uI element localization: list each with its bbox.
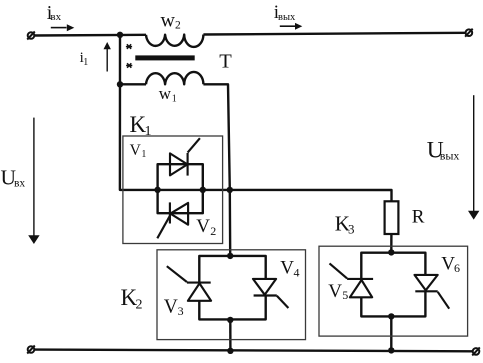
svg-text:1: 1 <box>141 149 146 160</box>
svg-text:6: 6 <box>454 261 460 275</box>
svg-text:2: 2 <box>175 19 181 31</box>
svg-text:5: 5 <box>342 288 348 302</box>
svg-text:2: 2 <box>210 224 216 238</box>
svg-text:вых: вых <box>278 12 296 23</box>
svg-text:R: R <box>412 206 425 227</box>
svg-text:V: V <box>196 216 210 237</box>
svg-text:3: 3 <box>178 304 184 318</box>
svg-text:вх: вх <box>14 177 25 189</box>
svg-text:2: 2 <box>136 298 143 313</box>
svg-text:w: w <box>159 84 172 103</box>
svg-text:V: V <box>280 258 294 279</box>
svg-text:V: V <box>130 142 142 159</box>
svg-text:3: 3 <box>348 222 355 237</box>
svg-text:T: T <box>219 50 232 72</box>
svg-text:w: w <box>161 9 176 31</box>
svg-text:1: 1 <box>145 124 152 139</box>
svg-text:1: 1 <box>83 57 88 68</box>
svg-text:V: V <box>328 281 342 302</box>
svg-text:4: 4 <box>294 266 300 280</box>
svg-text:вх: вх <box>50 11 61 23</box>
svg-text:1: 1 <box>172 93 177 104</box>
svg-text:V: V <box>164 296 178 317</box>
svg-text:вых: вых <box>440 148 460 162</box>
